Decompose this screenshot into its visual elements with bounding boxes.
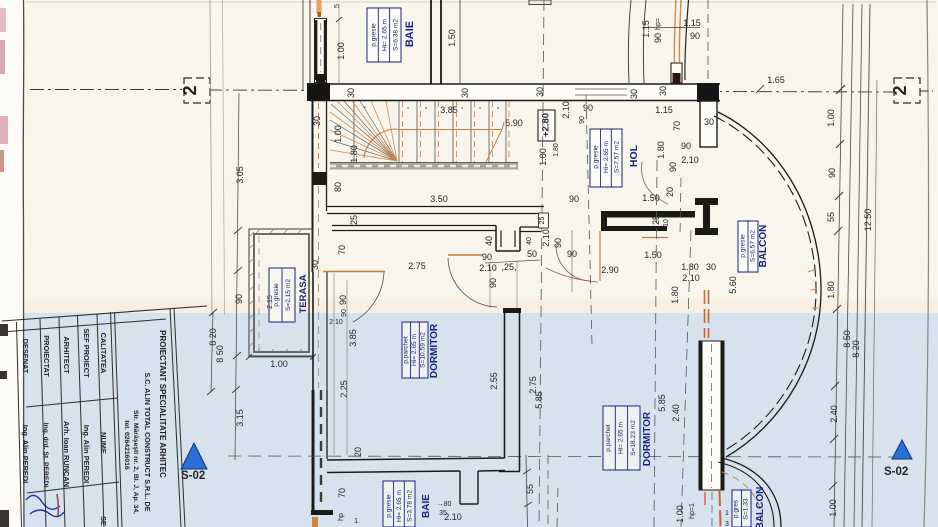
long horizontal dashed axis y456	[228, 456, 893, 457]
svg-text:BALCON: BALCON	[758, 225, 769, 268]
svg-text:S=6.57 m2: S=6.57 m2	[750, 230, 757, 262]
left page margin strip	[0, 0, 23, 527]
svg-text:1.00: 1.00	[826, 109, 836, 127]
svg-text:S=7.57 m2: S=7.57 m2	[614, 141, 621, 173]
svg-text:1.80: 1.80	[826, 281, 836, 299]
svg-text:p.gresie: p.gresie	[371, 23, 378, 47]
right wall of dormitor x504-520	[504, 309, 506, 459]
svg-text:1.00: 1.00	[270, 359, 288, 369]
svg-text:55: 55	[826, 212, 836, 222]
svg-text:BAIE: BAIE	[421, 494, 432, 518]
TERASA label box	[269, 268, 295, 322]
svg-text:1.80: 1.80	[538, 148, 548, 166]
dashed axis x656	[654, 160, 657, 527]
svg-text:PROIECTANT SPECIALITATE ARHITE: PROIECTANT SPECIALITATE ARHITEC	[158, 330, 167, 478]
left dim line	[235, 93, 239, 460]
svg-text:5: 5	[334, 4, 341, 8]
dim line D	[862, 4, 870, 527]
svg-text:90: 90	[553, 238, 563, 248]
svg-text:Hi= 2.65 m: Hi= 2.65 m	[618, 421, 625, 454]
winder fan lines orange	[330, 101, 397, 161]
svg-text:1.50: 1.50	[642, 193, 660, 203]
svg-text:90: 90	[482, 252, 492, 262]
dashed axis x690	[681, 230, 691, 527]
svg-text:2: 2	[180, 85, 200, 95]
svg-text:S=3.78 m2: S=3.78 m2	[407, 490, 414, 522]
svg-text:8 20: 8 20	[208, 328, 218, 346]
orange walk line to 5.90	[397, 122, 504, 130]
svg-text:3.15: 3.15	[235, 409, 245, 427]
svg-text:S=1.33: S=1.33	[743, 498, 750, 519]
svg-text:2.10: 2.10	[329, 319, 343, 326]
svg-text:2.10: 2.10	[541, 229, 551, 247]
gray axis dashes in left wall	[318, 186, 320, 388]
svg-text:DORMITOR: DORMITOR	[642, 411, 653, 466]
orange ticks on arc	[808, 270, 818, 308]
warm pink band above blue	[0, 299, 938, 313]
svg-text:1.00: 1.00	[333, 125, 343, 143]
svg-text:80: 80	[333, 182, 343, 192]
door arc HOL right	[642, 162, 668, 204]
orange axis dashes above pier	[704, 290, 706, 338]
mid wall right portion: double bars	[601, 211, 607, 231]
svg-text:90: 90	[827, 168, 837, 178]
svg-text:DESENAT: DESENAT	[21, 339, 30, 374]
balcony big arc outer	[718, 112, 821, 457]
wall below column B (hollow)	[700, 101, 717, 147]
svg-text:hp=: hp=	[655, 18, 662, 30]
svg-text:30: 30	[312, 116, 322, 126]
svg-text:1.15: 1.15	[641, 20, 651, 38]
dim line B	[844, 4, 853, 527]
svg-text:→80: →80	[437, 501, 452, 508]
bottom wall y458-464	[327, 458, 504, 460]
pink smudge top-left	[0, 8, 6, 32]
bottom-left blue ink scribbles	[26, 495, 64, 516]
dim line for 55 chain	[526, 455, 528, 527]
svg-text:1.80: 1.80	[349, 145, 359, 163]
svg-text:,25,: ,25,	[501, 262, 516, 272]
right S-02 triangle	[892, 440, 912, 459]
section trace line	[30, 89, 182, 91]
tick on dim line	[336, 17, 342, 22]
svg-text:2: 2	[890, 85, 910, 95]
svg-text:70: 70	[672, 121, 682, 131]
dark curved line right of mullion	[685, 0, 689, 80]
svg-text:p.gresie: p.gresie	[593, 145, 600, 169]
vertical dashed axis x541	[539, 0, 544, 527]
svg-text:1: 1	[725, 510, 729, 517]
svg-text:BAIE: BAIE	[404, 21, 416, 47]
small balcony orange dashed arc	[722, 472, 763, 527]
svg-text:5.90: 5.90	[505, 118, 523, 128]
BAIE room label box	[367, 8, 401, 62]
svg-text:p.parchet: p.parchet	[605, 424, 612, 452]
dashed axis x557 bottom	[557, 488, 558, 527]
BAIE-bottom label box	[383, 481, 415, 527]
tick marks on chain	[829, 85, 845, 490]
svg-text:3.50: 3.50	[430, 194, 448, 204]
blue tinted lower paper band	[0, 313, 938, 527]
svg-text:25: 25	[539, 217, 546, 225]
svg-text:2.10: 2.10	[682, 273, 700, 283]
svg-text:30: 30	[346, 88, 356, 98]
I-beam pier	[695, 198, 718, 205]
dim line x347	[346, 280, 348, 455]
U-notch in bottom wall	[459, 471, 461, 504]
door dim lines	[485, 260, 540, 263]
svg-text:40: 40	[484, 236, 494, 246]
svg-text:Ing. Alin PEREDI: Ing. Alin PEREDI	[21, 425, 30, 483]
balcony pier bar	[699, 341, 724, 490]
svg-text:NUME: NUME	[99, 432, 108, 454]
thin line x310	[309, 0, 311, 84]
svg-text:hp: hp	[338, 513, 345, 521]
stair treads (dark)	[354, 101, 506, 163]
orange tick below pier	[312, 517, 318, 527]
svg-text:HOL: HOL	[628, 144, 640, 167]
svg-text:3.85: 3.85	[440, 105, 458, 115]
svg-text:12.50: 12.50	[863, 209, 873, 232]
pier dashed centerline	[711, 344, 713, 488]
tick marks on section dim	[756, 85, 764, 93]
+2.80 level box	[538, 110, 555, 141]
BAIE right wall (double line x430)	[430, 0, 432, 84]
svg-text:2.10: 2.10	[444, 512, 462, 522]
svg-text:2.10: 2.10	[681, 155, 699, 165]
mid wall lower (y225-231)	[332, 225, 496, 227]
curved bay line left pair	[628, 0, 631, 83]
wall bottom cap	[311, 510, 333, 515]
table top border outer	[2, 306, 207, 321]
pink smudge 2	[0, 40, 5, 74]
svg-text:70: 70	[337, 488, 347, 498]
svg-text:10: 10	[663, 219, 670, 227]
bottom-left red ink mark	[57, 494, 58, 516]
svg-text:ARHITECT: ARHITECT	[62, 336, 71, 374]
svg-text:90: 90	[653, 33, 663, 43]
svg-text:Hi= 2.65 m: Hi= 2.65 m	[396, 489, 403, 522]
svg-text:50: 50	[527, 249, 537, 259]
svg-text:2.40: 2.40	[671, 404, 681, 422]
thin dim line x572	[571, 230, 573, 292]
stair left wall hollow	[312, 101, 314, 272]
shallow arc second	[546, 268, 598, 282]
svg-text:90: 90	[569, 194, 579, 204]
svg-text:1.00: 1.00	[828, 499, 838, 517]
svg-text:1.65: 1.65	[767, 75, 785, 85]
window W1 orange head	[317, 0, 322, 13]
right line lower	[326, 390, 328, 459]
svg-text:2.10: 2.10	[561, 101, 571, 119]
left main wall lower: thick left line	[312, 390, 315, 514]
column B (black) top-right	[697, 83, 719, 102]
tiny box top edge	[529, 0, 551, 5]
small frame under mullion	[671, 63, 682, 83]
svg-text:1.80: 1.80	[656, 141, 666, 159]
dim line hp	[644, 27, 700, 29]
dim line under terasa	[249, 356, 313, 358]
svg-text:55: 55	[525, 484, 535, 494]
svg-text:SE: SE	[99, 516, 108, 526]
left section marker box 2	[184, 78, 210, 103]
svg-text:S=18.23 m2: S=18.23 m2	[630, 420, 637, 456]
small bottom balcony arc inner	[718, 462, 774, 527]
svg-text:2.40: 2.40	[829, 405, 839, 423]
small bottom balcony arc outer	[722, 458, 781, 527]
black jamb in left wall	[312, 172, 326, 185]
terasa door swing arc	[353, 272, 384, 322]
thin partition line x463	[459, 0, 461, 83]
svg-text:BALCON: BALCON	[755, 487, 766, 527]
terasa inner dashed line	[258, 236, 260, 350]
svg-text:2.10: 2.10	[479, 263, 497, 273]
tiny dots row	[364, 106, 499, 109]
svg-text:2.75: 2.75	[528, 376, 538, 394]
svg-text:1.80: 1.80	[553, 143, 560, 157]
svg-text:90: 90	[488, 278, 498, 288]
svg-text:2.55: 2.55	[489, 372, 499, 390]
faint vertical line near left marker	[210, 0, 212, 315]
svg-text:p.gresie: p.gresie	[740, 234, 747, 258]
svg-text:S-02: S-02	[181, 470, 205, 482]
svg-text:8 50: 8 50	[215, 345, 225, 363]
svg-text:30: 30	[704, 117, 714, 127]
svg-text:30: 30	[629, 89, 639, 99]
svg-text:S-02: S-02	[884, 466, 908, 478]
pink smudge 3	[0, 116, 8, 144]
table top border inner	[2, 319, 166, 332]
dashed short x681	[680, 178, 681, 236]
door arc HOL lower-left	[556, 245, 590, 281]
svg-text:Hi= 2.65 m: Hi= 2.65 m	[382, 18, 389, 51]
DORMITOR-left label box	[402, 322, 428, 378]
svg-text:1.00: 1.00	[336, 42, 346, 60]
dashed axis x586-592	[586, 95, 592, 345]
svg-text:30: 30	[658, 86, 668, 96]
svg-text:TERASA: TERASA	[298, 274, 309, 313]
stair bottom gray band	[330, 163, 518, 170]
doorway niche stubs	[495, 226, 497, 252]
svg-text:3: 3	[725, 521, 729, 527]
svg-text:S=2.15 m2: S=2.15 m2	[285, 279, 292, 311]
svg-text:90: 90	[668, 162, 678, 172]
column A (black) top-left	[307, 83, 330, 101]
svg-text:1.50: 1.50	[644, 250, 662, 260]
faint right page border	[924, 0, 929, 527]
left S-02 triangle	[181, 443, 207, 469]
winder fan lines dark	[330, 101, 397, 161]
svg-text:Hi= 2.65 m: Hi= 2.65 m	[603, 140, 610, 173]
svg-text:1.00: 1.00	[675, 505, 685, 523]
svg-text:2.25: 2.25	[339, 380, 349, 398]
svg-text:p.gresie: p.gresie	[386, 494, 393, 518]
stair treads (orange dashed)	[403, 101, 510, 163]
svg-text:3.05: 3.05	[235, 166, 245, 184]
svg-text:Ing. Alin PEREDI: Ing. Alin PEREDI	[82, 425, 91, 483]
dormitor door orange leaf	[448, 254, 483, 256]
thin line x303	[302, 0, 304, 91]
dormitor door swing	[448, 258, 497, 307]
svg-text:1.: 1.	[354, 518, 360, 525]
svg-text:Str. Mărăşeşti nr. 2, Bl. J, A: Str. Mărăşeşti nr. 2, Bl. J, Ap. 34,	[132, 410, 139, 514]
svg-text:20: 20	[665, 187, 675, 197]
dim chain line for 8.50	[211, 312, 213, 392]
left wall below terasa (double)	[312, 272, 314, 390]
svg-text:5.85: 5.85	[657, 394, 667, 412]
svg-text:2.15: 2.15	[267, 295, 274, 309]
svg-text:1.50: 1.50	[447, 29, 457, 47]
dashed axis x708 above wall	[707, 0, 709, 83]
svg-text:Ing. drd. Şt. PEREDI: Ing. drd. Şt. PEREDI	[42, 423, 49, 488]
DORMITOR-right label box	[603, 406, 640, 470]
svg-text:30: 30	[706, 262, 716, 272]
svg-text:S.C. ALIN TOTAL CONSTRUCT S.R.: S.C. ALIN TOTAL CONSTRUCT S.R.L. DE	[143, 372, 152, 511]
svg-text:S=10.59 m2: S=10.59 m2	[420, 332, 427, 368]
wall band fill	[310, 84, 720, 101]
orange axis dash in wall	[318, 103, 320, 168]
svg-text:tel. 0264216016: tel. 0264216016	[123, 420, 130, 470]
svg-text:25: 25	[651, 215, 661, 225]
svg-text:p.gres: p.gres	[733, 499, 740, 518]
left page edge line	[22, 0, 25, 527]
svg-text:DORMITOR: DORMITOR	[429, 323, 440, 378]
dark dashed axis in wall	[320, 390, 322, 508]
svg-text:30: 30	[460, 88, 470, 98]
svg-text:90: 90	[681, 141, 691, 151]
svg-text:SEF PROIECT: SEF PROIECT	[82, 328, 91, 378]
edge dark blobs	[0, 324, 8, 336]
window W1 left (vertical in wall x315)	[315, 19, 327, 83]
svg-text:20: 20	[353, 447, 363, 457]
mid wall upper (y206-214) left part	[327, 206, 544, 208]
wall top edge	[310, 83, 720, 85]
svg-text:90: 90	[690, 31, 700, 41]
terasa outer border	[249, 229, 313, 356]
orange horizontal under bar	[642, 237, 668, 239]
svg-text:1.15: 1.15	[683, 18, 701, 28]
dim line x339	[338, 4, 340, 83]
HOL label box	[590, 129, 622, 187]
svg-text:90: 90	[579, 116, 586, 124]
dim line E faint	[872, 80, 877, 527]
svg-text:1.15: 1.15	[655, 105, 673, 115]
window W1 dark sill blob	[316, 74, 326, 84]
svg-text:90: 90	[583, 103, 593, 113]
svg-text:1.80: 1.80	[670, 286, 680, 304]
BALCON-bottom label box	[732, 490, 751, 527]
terasa border hatch ticks	[250, 229, 302, 353]
svg-text:2.90: 2.90	[601, 265, 619, 275]
orange diagonal down	[486, 130, 502, 163]
table verticals	[17, 308, 186, 527]
orange mullion strip	[674, 0, 676, 62]
dim line A	[834, 4, 843, 527]
svg-text:40: 40	[526, 237, 533, 245]
svg-text:90: 90	[234, 294, 244, 304]
svg-text:hp=1: hp=1	[689, 503, 696, 519]
terasa door orange leaf	[323, 271, 385, 273]
right section marker box 2	[894, 78, 920, 103]
svg-text:PROIECTAT: PROIECTAT	[42, 335, 51, 377]
svg-text:90: 90	[338, 295, 348, 305]
svg-text:8 20: 8 20	[851, 340, 861, 358]
dim line C	[854, 4, 862, 527]
svg-text:+2.80: +2.80	[541, 113, 552, 137]
orange axis dashes below pier	[704, 492, 706, 505]
table row separators	[26, 398, 119, 493]
svg-text:70: 70	[337, 245, 347, 255]
svg-text:5.60: 5.60	[728, 276, 738, 294]
svg-text:5.85: 5.85	[534, 391, 544, 409]
faint top page border	[26, 1, 936, 3]
orange vertical at x600	[599, 231, 601, 281]
BALCON-right label box	[738, 221, 758, 272]
red smudge mid-left	[0, 150, 4, 172]
wall bottom edge	[310, 100, 720, 102]
svg-text:25: 25	[349, 215, 359, 225]
orange walk-line arc	[364, 129, 397, 158]
balcony big arc inner (dashed)	[714, 116, 816, 452]
svg-text:Hi= 2.65 m: Hi= 2.65 m	[411, 333, 418, 366]
dim line x334	[333, 273, 335, 455]
svg-text:30: 30	[310, 260, 320, 270]
svg-text:2.75: 2.75	[408, 261, 426, 271]
svg-text:Arh. Ioan RUNCAN: Arh. Ioan RUNCAN	[62, 421, 71, 487]
svg-text:p.gresie: p.gresie	[273, 283, 280, 307]
svg-text:CALITATEA: CALITATEA	[99, 333, 108, 374]
svg-text:p.parchet: p.parchet	[403, 336, 410, 364]
svg-text:3.85: 3.85	[348, 329, 358, 347]
svg-text:S=6.38 m2: S=6.38 m2	[393, 19, 400, 51]
window lines in wall opening 575-626	[575, 88, 627, 90]
terasa inner border	[254, 234, 309, 352]
